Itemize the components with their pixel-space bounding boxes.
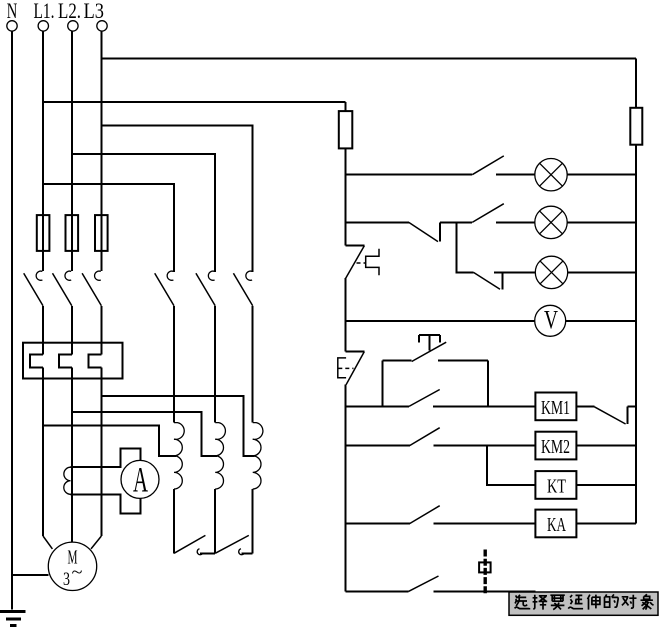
- voltmeter row wire left: [346, 320, 535, 322]
- svg-text:3: 3: [63, 569, 70, 590]
- switch QS1 pole 1: [24, 251, 43, 355]
- terminal L2: [68, 21, 78, 31]
- coil KM1: [535, 393, 576, 421]
- contact KM2 NO: [410, 428, 536, 446]
- motor lead 3: [91, 536, 101, 549]
- bottom rung wire: [346, 590, 409, 592]
- contact KM2 interlock NC: [576, 406, 636, 424]
- wire L2 branch to QS2 pole B: [72, 154, 215, 272]
- lamp HL1: [535, 159, 636, 191]
- wire L3 branch to QS2 pole C: [101, 126, 252, 272]
- fuse FU2: [66, 215, 79, 251]
- contact lamp1 NO: [472, 156, 535, 175]
- lamp row 1 wire: [346, 174, 473, 176]
- FR heater element 1: [30, 354, 43, 367]
- wire branch row2 to row3: [456, 222, 473, 272]
- wire pole1 tap to winding1 mid: [43, 426, 176, 456]
- svg-text:KM2: KM2: [541, 436, 570, 458]
- wire branch B vertical: [487, 360, 489, 406]
- wire L2 vertical: [71, 31, 73, 215]
- svg-text:N: N: [7, 0, 18, 23]
- fuse FU3: [95, 215, 108, 251]
- switch QS1 pole 2: [53, 251, 72, 355]
- FR heater element 3: [89, 354, 102, 367]
- KM1 rung wire left: [346, 405, 410, 407]
- switch QS2 pole B: [196, 154, 215, 423]
- contact KM1 self-hold NO: [409, 390, 535, 407]
- wire pole3 tap to winding3 mid: [101, 396, 254, 456]
- node L1 label: [34, 0, 55, 23]
- svg-text:KT: KT: [547, 476, 566, 498]
- wire pole1 below FR to motor: [42, 368, 44, 537]
- wire L3 to right rail: [101, 57, 636, 59]
- KM2 rung wire left: [346, 445, 410, 447]
- wire CT top to ammeter: [71, 449, 141, 468]
- voltmeter PV: [535, 305, 636, 336]
- svg-text:~: ~: [72, 562, 83, 583]
- wire N vertical: [11, 31, 13, 610]
- contact lamp3 NO down: [474, 272, 536, 289]
- svg-text:KA: KA: [547, 514, 566, 536]
- lamp HL3: [535, 256, 636, 288]
- contact KA NO: [410, 506, 536, 524]
- switch QS2 pole C: [233, 126, 252, 423]
- wire N to motor: [12, 574, 48, 576]
- motor lead 1: [43, 536, 52, 549]
- contact KT delayed NC 2 on left rail: [338, 351, 365, 591]
- coil KM2: [535, 432, 636, 460]
- wire L1 to left rail: [43, 101, 346, 103]
- lamp HL2: [535, 206, 636, 238]
- fuse FU5 control right: [630, 58, 642, 523]
- pushbutton SB branch top wire: [383, 359, 489, 361]
- terminal L3: [97, 21, 107, 31]
- coil KA: [535, 510, 636, 538]
- node N label: [7, 0, 18, 23]
- motor M: [48, 542, 96, 590]
- contact KM3 star contact 1: [174, 535, 215, 554]
- wire L1 vertical: [42, 31, 44, 215]
- current transformer TA: [64, 467, 71, 494]
- fuse FU1: [37, 215, 50, 251]
- wire branch A vertical: [382, 360, 384, 406]
- contact row2 NO down: [409, 222, 472, 241]
- terminal N: [7, 21, 17, 31]
- pushbutton SB: [412, 335, 447, 361]
- contact bottom NO: [409, 576, 536, 591]
- KT branch vertical: [487, 446, 535, 486]
- wire pole3 below FR to motor: [100, 368, 102, 537]
- coil KT: [535, 471, 636, 499]
- FR heater element 2: [59, 354, 72, 367]
- thermal relay FR heater box: [23, 343, 123, 379]
- wire L1 branch to QS2 pole A: [43, 184, 174, 272]
- wire pole2 tap to winding2 mid: [72, 412, 217, 456]
- svg-text:V: V: [544, 306, 558, 335]
- switch QS2 pole A: [155, 184, 174, 423]
- contact lamp2 NO: [472, 204, 535, 223]
- reactor winding 2: [215, 423, 225, 554]
- extend cursor marker: [479, 550, 491, 595]
- contact KM3 star contact 2: [215, 535, 253, 554]
- wire CT bottom to ammeter: [71, 494, 141, 513]
- svg-text:L3: L3: [84, 0, 105, 23]
- status text 选择要延伸的对象: [515, 594, 654, 609]
- svg-text:KM1: KM1: [541, 397, 570, 419]
- lamp row 2 wire: [346, 221, 409, 223]
- fuse FU4 control left: [339, 102, 353, 245]
- switch QS1 pole 3: [82, 251, 101, 355]
- contact KT delayed NC 1 on left rail: [346, 245, 380, 351]
- ground: [0, 612, 25, 626]
- svg-text:A: A: [133, 460, 148, 500]
- status bar: [509, 592, 658, 615]
- node L3 label: [84, 0, 105, 23]
- wire pole2 below FR to motor: [71, 368, 73, 543]
- terminal L1: [38, 21, 48, 31]
- svg-text:L2.: L2.: [58, 0, 81, 23]
- reactor winding 3: [253, 423, 263, 554]
- KA rung wire left: [346, 523, 410, 525]
- reactor winding 1: [174, 423, 184, 554]
- wire L3 vertical: [100, 31, 102, 215]
- node L2 label: [58, 0, 81, 23]
- ammeter A: [121, 460, 159, 500]
- svg-text:L1.: L1.: [34, 0, 55, 23]
